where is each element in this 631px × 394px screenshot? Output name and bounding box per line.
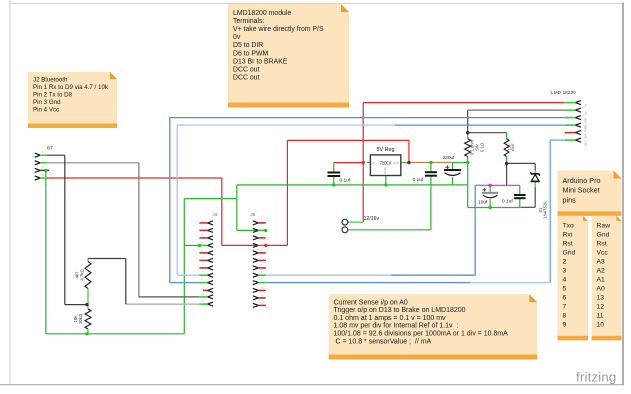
- connector J4 socket row: [199, 212, 217, 306]
- wire green zener stubs: [534, 171, 536, 174]
- svg-text:78XX: 78XX: [379, 161, 392, 167]
- wire gray from BT pin2: [47, 162, 139, 164]
- wire red vertical x363 to regulator IN: [362, 103, 364, 163]
- svg-text:J2 Bluetooth: J2 Bluetooth: [33, 76, 68, 83]
- wire green lower supply terminal to x431: [348, 229, 431, 231]
- svg-text:Pin 3 Gnd: Pin 3 Gnd: [33, 99, 61, 106]
- wire green branch to J4 pin4: [184, 244, 199, 246]
- svg-text:A2: A2: [597, 268, 606, 275]
- resistor filter 10k: [504, 139, 515, 157]
- wire red vertical into OUT junction: [408, 140, 410, 162]
- svg-text:13: 13: [597, 295, 605, 302]
- wire green filter resistor leads: [506, 133, 508, 139]
- svg-text:5: 5: [563, 286, 567, 293]
- wire tan regulator OUT to 220uf: [409, 162, 453, 164]
- svg-text:12/16v: 12/16v: [364, 216, 380, 222]
- wire dark to J4 pin11: [139, 296, 200, 298]
- svg-text:DCC out: DCC out: [233, 74, 260, 81]
- svg-text:J4: J4: [213, 212, 218, 217]
- svg-text:3: 3: [563, 268, 567, 275]
- svg-text:0v: 0v: [233, 34, 241, 41]
- svg-text:Current Sense i/p on A0: Current Sense i/p on A0: [334, 299, 408, 306]
- svg-text:4.7kΩ: 4.7kΩ: [80, 269, 85, 281]
- wire green y198 link: [184, 198, 237, 200]
- svg-text:D5 to DIR: D5 to DIR: [233, 42, 263, 49]
- wire red regulator IN dot down to supply terminal: [362, 163, 364, 223]
- note pin table right column: [592, 216, 622, 340]
- resistor 0.1 ohm current sense: [465, 139, 485, 157]
- svg-text:Rst: Rst: [563, 240, 573, 247]
- svg-text:2: 2: [563, 258, 567, 265]
- wire red regulator IN loop top: [287, 139, 409, 141]
- wire black filter bottom down to A0 node: [506, 163, 508, 185]
- wire green 0.1uf C5 leads: [519, 185, 521, 194]
- wire green vertical x236.8: [236, 185, 238, 231]
- wire black LMD pin2 branch down to sense top: [467, 110, 469, 133]
- connector BT (J2 bluetooth header): [35, 146, 53, 181]
- svg-text:Rxi: Rxi: [563, 231, 573, 238]
- wire green from BT pin3 down: [45, 170, 47, 333]
- capacitor C5 0.1uf: [502, 195, 526, 205]
- capacitor C3 220uf electrolytic: [443, 155, 462, 176]
- svg-text:Gnd: Gnd: [563, 249, 576, 256]
- wire light gray to J4 pin12: [126, 303, 200, 305]
- svg-text:Terminals:: Terminals:: [233, 18, 264, 25]
- wire black 4k7 top to J4 pin12 drop: [88, 258, 126, 260]
- node red junctions: [264, 161, 411, 247]
- power terminals 12/16v: [342, 216, 379, 233]
- wire magenta A0 node: [490, 184, 520, 186]
- wire green regulator GND lead: [385, 176, 387, 185]
- wire green 0.1uf C1 leads: [333, 163, 335, 172]
- wire black sense top to filter resistor: [468, 132, 507, 134]
- svg-text:PWM: PWM: [584, 124, 588, 132]
- connector J5 socket row: [251, 212, 266, 307]
- wire green to J5 pin2: [237, 229, 266, 231]
- svg-text:1N4732A: 1N4732A: [542, 201, 547, 219]
- svg-text:Pin 4 Vcc: Pin 4 Vcc: [33, 107, 59, 114]
- svg-text:4: 4: [563, 277, 567, 284]
- svg-text:IN: IN: [372, 161, 375, 165]
- wire red +12V rail to LMD pin1: [363, 102, 565, 104]
- svg-text:DCC out: DCC out: [233, 66, 260, 73]
- wire green sense node down and right: [467, 163, 469, 208]
- capacitor C1 0.1uf: [328, 173, 351, 184]
- capacitor C2 0.1uf: [413, 172, 437, 183]
- svg-text:OUT: OUT: [393, 161, 399, 165]
- wire red vertical x221: [221, 178, 223, 245]
- wire light blue LMD pin4 to J4 pin8: [177, 124, 395, 126]
- wire green upper supply terminal stub: [348, 221, 363, 223]
- wire red cap to regulator IN dot: [334, 162, 363, 164]
- wire black zener bottom to ground bus: [534, 187, 536, 208]
- wire green 5V bus y185: [237, 184, 468, 186]
- wire red J5 pin4 to x287: [266, 244, 288, 246]
- svg-text:Pin 1 Rx to D9 via 4.7 / 10k: Pin 1 Rx to D9 via 4.7 / 10k: [33, 84, 109, 91]
- svg-text:A3: A3: [597, 258, 606, 265]
- svg-text:OUT: OUT: [584, 140, 588, 147]
- zener diode Z1 1N4732A: [531, 172, 547, 219]
- svg-text:J5: J5: [251, 212, 256, 217]
- svg-text:10: 10: [597, 322, 605, 329]
- wire gray LMD pin2: [468, 109, 565, 111]
- wire green vertical x184: [183, 199, 185, 334]
- svg-text:0.1uf: 0.1uf: [413, 177, 424, 183]
- svg-text:Rst: Rst: [597, 240, 607, 247]
- svg-text:Vcc: Vcc: [597, 249, 609, 256]
- svg-text:12: 12: [597, 304, 605, 311]
- svg-text:10kΩ: 10kΩ: [78, 313, 83, 324]
- note pin table left column: [558, 216, 589, 340]
- svg-text:8: 8: [563, 313, 567, 320]
- svg-text:GND: GND: [383, 167, 387, 173]
- svg-text:11: 11: [597, 313, 604, 320]
- svg-text:D6 to PWM: D6 to PWM: [233, 50, 268, 57]
- svg-text:DIR: DIR: [584, 117, 588, 123]
- svg-text:LMD18200 module: LMD18200 module: [233, 10, 291, 17]
- note Arduino Pro Mini Socket pins: [558, 171, 622, 216]
- voltage regulator 78XX U1: [370, 147, 400, 176]
- wire gray vertical x139: [138, 163, 140, 297]
- wire blue J5 pin8 to A0 sense node: [266, 274, 392, 276]
- wire red from BT pin4: [47, 177, 222, 179]
- capacitor C4 10uf electrolytic: [478, 188, 498, 206]
- wire green sense resistor leads: [467, 133, 469, 139]
- svg-text:Txo: Txo: [563, 222, 575, 229]
- note J2 Bluetooth: [28, 72, 117, 128]
- svg-text:100/1.08 = 92.6 divisions per: 100/1.08 = 92.6 divisions per 1000mA or …: [334, 331, 509, 338]
- note current sense calculation: [329, 294, 538, 359]
- svg-text:0.1 ohm at 1 amps = 0.1 v = 10: 0.1 ohm at 1 amps = 0.1 v = 100 mv: [334, 315, 447, 322]
- svg-text:10kΩ: 10kΩ: [511, 143, 515, 151]
- svg-text:V+ take wire directly from P/S: V+ take wire directly from P/S: [233, 26, 324, 33]
- svg-text:Mini Socket: Mini Socket: [563, 186, 600, 195]
- wire red vertical x287: [286, 140, 288, 245]
- svg-text:BT: BT: [47, 146, 53, 151]
- svg-text:Raw: Raw: [597, 222, 611, 229]
- svg-text:pins: pins: [563, 195, 577, 204]
- svg-text:0.1uf: 0.1uf: [502, 199, 513, 205]
- connector LMD18200 module header: [551, 90, 588, 146]
- wire blue J5 pin9 to LMD pin6: [266, 282, 470, 284]
- svg-text:Arduino Pro: Arduino Pro: [563, 176, 601, 185]
- svg-text:D13 Br to BRAKE: D13 Br to BRAKE: [233, 58, 288, 65]
- wire green bottom y334: [46, 333, 185, 335]
- svg-text:C = 10.8 * sensorValue ; // m: C = 10.8 * sensorValue ; // mA: [334, 338, 432, 345]
- resistor 4k7: [75, 259, 92, 305]
- wire green regulator IN OUT stubs: [367, 162, 371, 164]
- node black junctions: [85, 131, 508, 306]
- wire green 0.1uf C2 leads and drop to terminal: [430, 163, 432, 172]
- wire green 220uf leads: [452, 163, 454, 170]
- svg-text:fritzing: fritzing: [576, 370, 616, 385]
- svg-text:9: 9: [563, 322, 567, 329]
- svg-text:A1: A1: [597, 277, 606, 284]
- svg-text:LMD 18200: LMD 18200: [551, 90, 576, 96]
- wire green 10uf leads: [489, 185, 491, 192]
- wire black filter bottom to zener: [507, 162, 536, 164]
- note LMD18200 module terminals: [228, 4, 349, 108]
- svg-text:Pin 2 Tx to D8: Pin 2 Tx to D8: [33, 92, 73, 99]
- wire red x221 to J5 pin4: [222, 244, 266, 246]
- svg-text:1.08 mv per div for Internal R: 1.08 mv per div for Internal Ref of 1.1v…: [334, 323, 459, 330]
- svg-text:6: 6: [563, 295, 567, 302]
- resistor 10k: [73, 305, 91, 334]
- svg-text:V+: V+: [584, 103, 588, 107]
- svg-text:10uf: 10uf: [478, 200, 488, 206]
- svg-text:5V Reg: 5V Reg: [377, 147, 395, 153]
- svg-text:0.1Ω: 0.1Ω: [480, 143, 485, 152]
- svg-text:Gnd: Gnd: [597, 231, 610, 238]
- node magenta junction A0: [488, 184, 491, 187]
- wire blue LMD pin3 to J4 pin9: [170, 117, 565, 119]
- svg-text:Trigger o/p on D13 to Brake on: Trigger o/p on D13 to Brake on LMD18200: [334, 307, 466, 314]
- svg-text:7: 7: [563, 304, 567, 311]
- node green junctions: [44, 161, 492, 336]
- svg-text:A0: A0: [597, 286, 606, 293]
- svg-text:220uf: 220uf: [443, 155, 456, 161]
- svg-text:0.1uf: 0.1uf: [340, 178, 351, 184]
- svg-text:0v: 0v: [584, 111, 588, 115]
- wire green 220uf to sense resistor bottom: [453, 162, 468, 164]
- wire black BT pin1 down to divider junction: [47, 154, 65, 156]
